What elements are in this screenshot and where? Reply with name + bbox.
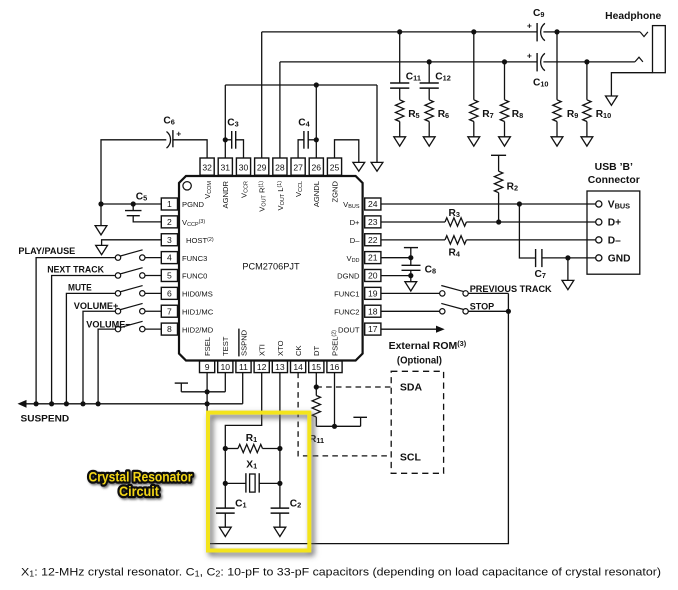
svg-text:12: 12 (257, 362, 267, 372)
pin 29 box (255, 158, 269, 175)
pin 16 box (327, 361, 342, 373)
pin 2 box (161, 216, 177, 228)
svg-text:15: 15 (312, 362, 322, 372)
capacitor C12 (427, 59, 432, 64)
capacitor C1 (216, 507, 235, 509)
wire pin 28 VOUTL riser (279, 62, 281, 158)
ground R5 (394, 137, 406, 146)
svg-text:25: 25 (330, 162, 340, 172)
svg-text:FUNC0: FUNC0 (182, 272, 207, 281)
svg-text:PREVIOUS TRACK: PREVIOUS TRACK (470, 284, 552, 294)
ground headphone sleeve (606, 96, 618, 105)
svg-text:Crystal Resonator: Crystal Resonator (89, 470, 194, 485)
svg-text:GND: GND (608, 254, 631, 265)
svg-text:R8: R8 (512, 109, 523, 120)
svg-text:R1: R1 (246, 433, 257, 444)
svg-text:TEST: TEST (221, 336, 230, 356)
resistor R6 (425, 100, 433, 122)
svg-text:SUSPEND: SUSPEND (21, 413, 70, 424)
svg-text:20: 20 (368, 271, 378, 281)
svg-text:21: 21 (368, 253, 378, 263)
capacitor C7 (535, 249, 537, 267)
svg-text:C5: C5 (136, 192, 147, 203)
svg-text:C12: C12 (435, 72, 451, 83)
wire analog gnd rail down (376, 85, 378, 162)
ground under C2 (274, 527, 286, 536)
wire pin 16 PSEL down (334, 373, 336, 427)
svg-text:NEXT TRACK: NEXT TRACK (47, 265, 104, 275)
wire bottom return rail (207, 293, 508, 543)
svg-text:HID2/MD: HID2/MD (182, 325, 214, 334)
svg-text:R2: R2 (507, 182, 518, 193)
crystal resonator highlight box (208, 413, 309, 551)
switch NEXT TRACK (145, 274, 161, 276)
pin 10 box (218, 361, 233, 373)
label Crystal Resonator Circuit (89, 470, 194, 499)
svg-text:VBUS: VBUS (608, 200, 630, 211)
wire C6 to pin 32 VCOM (173, 140, 207, 158)
svg-text:CK: CK (294, 345, 303, 356)
svg-text:SCL: SCL (400, 452, 422, 464)
svg-text:+: + (527, 51, 532, 61)
wire switch to SUSPEND rail (52, 275, 116, 403)
capacitor C4 (298, 140, 304, 158)
ground R9 (551, 137, 563, 146)
svg-text:30: 30 (239, 162, 249, 172)
svg-text:VOLUME+: VOLUME+ (74, 301, 119, 311)
svg-text:X1: 12-MHz crystal resonator.: X1: 12-MHz crystal resonator. C1, C2: 10… (21, 566, 661, 578)
svg-text:13: 13 (275, 362, 285, 372)
pin 26 box (309, 158, 323, 175)
svg-text:FSEL: FSEL (203, 337, 212, 356)
node SUSPEND rail (26, 403, 243, 405)
svg-text:X1: X1 (246, 460, 257, 471)
node PGND rail (101, 203, 161, 205)
ground under C1 (219, 527, 231, 536)
svg-text:23: 23 (368, 217, 378, 227)
USB pin VBUS (596, 201, 602, 207)
svg-text:R5: R5 (408, 109, 419, 120)
wire pin 13 XTO to crystal (279, 373, 281, 449)
wire pin 14 CK to SCL (dashed) (298, 373, 391, 456)
pin 23 box (365, 216, 381, 228)
pin 12 box (254, 361, 269, 373)
svg-text:C11: C11 (406, 72, 421, 83)
ground ZGND (353, 162, 365, 171)
svg-text:SSPND: SSPND (239, 329, 248, 356)
wire jack sleeve to ground (611, 73, 652, 96)
pin 22 box (365, 234, 381, 246)
wire pin 10 TEST down (224, 373, 226, 392)
resistor R9 (556, 32, 558, 100)
svg-text:2: 2 (167, 217, 172, 227)
pin 24 box (365, 198, 381, 210)
wire SUSPEND rail to pin 11 SSPND (242, 373, 244, 404)
svg-text:C6: C6 (163, 115, 174, 126)
svg-text:Headphone: Headphone (605, 11, 662, 22)
resistor R11 (312, 396, 320, 418)
svg-text:31: 31 (221, 162, 231, 172)
ground for HOST (96, 245, 108, 254)
svg-text:AGNDR: AGNDR (221, 180, 230, 208)
headphone jack body (653, 26, 666, 73)
wire pin 12 XTI to crystal (225, 373, 261, 449)
svg-text:PCM2706PJT: PCM2706PJT (242, 262, 300, 272)
wire strap junction to bottom rail (206, 392, 208, 544)
resistor R5 (396, 100, 404, 122)
svg-text:D+: D+ (350, 218, 360, 227)
wire switch to SUSPEND rail (83, 311, 115, 404)
svg-text:29: 29 (257, 162, 267, 172)
crystal X1 (225, 482, 246, 484)
pin 7 box (161, 305, 177, 317)
ground under DGND (410, 276, 412, 282)
svg-text:C8: C8 (425, 264, 436, 275)
resistor R2 pull-up (491, 154, 506, 156)
pin 25 box (327, 158, 341, 175)
pin 9 box (200, 361, 215, 373)
svg-text:XTO: XTO (276, 340, 285, 356)
wire pin 20 DGND (381, 275, 411, 277)
wire pin 9 FSEL down (206, 373, 208, 392)
wire PREVIOUS TRACK switch to return (468, 292, 508, 294)
pin 20 box (365, 269, 381, 281)
wire FSEL TEST strap (181, 391, 225, 393)
SSPND overbar (238, 329, 240, 357)
svg-text:18: 18 (368, 306, 378, 316)
svg-text:32: 32 (202, 162, 212, 172)
pin 32 box (200, 158, 214, 175)
svg-text:17: 17 (368, 324, 378, 334)
svg-text:SDA: SDA (400, 382, 423, 394)
resistor R8 (502, 59, 507, 64)
terminal T-bar VDD (404, 247, 418, 249)
pin 18 box (365, 305, 381, 317)
terminal T-bar for R11/PSEL strap (360, 417, 362, 426)
svg-text:19: 19 (368, 288, 378, 298)
resistor R1 (225, 448, 238, 450)
IC U1 PCM2706PJT body (179, 176, 363, 361)
wire C6 left to PGND rail (101, 140, 166, 204)
capacitor C8 (410, 258, 412, 266)
svg-text:5: 5 (167, 271, 172, 281)
wire crystal right column (279, 449, 281, 509)
pin 31 box (218, 158, 232, 175)
pin 21 box (365, 252, 381, 264)
ground R8 (499, 137, 511, 146)
pin 30 box (236, 158, 250, 175)
wire D- pin 22 with resistor R4 (381, 239, 445, 241)
wire VBUS pin 24 to connector (381, 203, 596, 205)
pin 17 box (365, 323, 381, 335)
svg-text:+: + (176, 129, 181, 139)
switch MUTE (145, 292, 161, 294)
svg-text:DT: DT (312, 346, 321, 356)
svg-text:R10: R10 (596, 109, 612, 120)
wire C9 to jack tip (557, 31, 640, 33)
wire VBUS to C7 (519, 204, 535, 258)
svg-text:C7: C7 (535, 269, 546, 280)
External ROM box (dashed) (391, 371, 443, 473)
svg-text:External ROM(3): External ROM(3) (389, 340, 467, 352)
wire STOP switch to return (468, 310, 508, 312)
svg-text:STOP: STOP (470, 302, 495, 312)
svg-text:XTI: XTI (258, 344, 267, 356)
switch PREVIOUS TRACK (381, 292, 440, 294)
wire switch to SUSPEND rail (36, 258, 115, 404)
svg-text:MUTE: MUTE (68, 282, 92, 292)
svg-text:C10: C10 (533, 77, 549, 88)
ground R10 (581, 137, 593, 146)
svg-text:+: + (527, 21, 532, 31)
svg-text:HID0/MS: HID0/MS (182, 290, 213, 299)
svg-text:DGND: DGND (337, 272, 360, 281)
svg-text:7: 7 (167, 306, 172, 316)
svg-text:ZGND: ZGND (330, 180, 339, 202)
wire pin 29 VOUTR riser (261, 32, 263, 158)
pin 28 box (273, 158, 287, 175)
wire pin 3 HOST to ground (102, 240, 162, 246)
wire pin 31 AGNDR riser (224, 85, 226, 158)
wire left channel rail (280, 61, 537, 63)
wire C5 to pin 2 VCCP (133, 216, 161, 222)
capacitor C2 (271, 507, 290, 509)
svg-text:Circuit: Circuit (119, 484, 159, 499)
capacitor C9 (536, 23, 538, 41)
wire C10 to jack ring (587, 61, 635, 63)
resistor R3 (445, 218, 466, 226)
wire R4 to connector (466, 239, 595, 241)
svg-text:9: 9 (205, 362, 210, 372)
pin 15 box (309, 361, 324, 373)
pin 3 box (161, 234, 177, 246)
svg-text:PGND: PGND (182, 200, 204, 209)
svg-text:16: 16 (330, 362, 340, 372)
wire R3 to connector (466, 221, 595, 223)
svg-text:14: 14 (293, 362, 303, 372)
wire D+ pin 23 with resistor R3 (381, 221, 445, 223)
switch VOLUME- (145, 328, 161, 330)
capacitor C10 (536, 53, 538, 71)
pin 4 box (161, 252, 177, 264)
svg-text:HID1/MC: HID1/MC (182, 307, 214, 316)
svg-text:VOLUME−: VOLUME− (86, 319, 131, 329)
svg-text:Connector: Connector (588, 175, 640, 186)
pin 13 box (272, 361, 287, 373)
svg-text:22: 22 (368, 235, 378, 245)
ground on USB GND (567, 258, 569, 281)
svg-text:1: 1 (167, 199, 172, 209)
pin 5 box (161, 269, 177, 281)
svg-text:PLAY/PAUSE: PLAY/PAUSE (18, 246, 75, 256)
capacitor C5 (132, 204, 134, 211)
svg-text:3: 3 (167, 235, 172, 245)
svg-text:(Optional): (Optional) (397, 355, 442, 366)
svg-text:C1: C1 (235, 498, 246, 509)
svg-text:24: 24 (368, 199, 378, 209)
headphone jack tip contact (640, 32, 648, 37)
svg-text:D–: D– (608, 236, 621, 247)
wire analog ground rail (225, 84, 377, 86)
svg-text:FUNC1: FUNC1 (334, 290, 359, 299)
svg-text:DOUT: DOUT (338, 325, 360, 334)
svg-text:6: 6 (167, 288, 172, 298)
ground below PGND rail (100, 204, 102, 226)
wire pin 25 ZGND to ground (335, 140, 359, 163)
svg-text:FUNC2: FUNC2 (334, 307, 359, 316)
wire crystal left column (224, 449, 226, 509)
wire C7 to GND pin of connector (542, 257, 596, 259)
terminal T-bar for FSEL/TEST (175, 382, 188, 384)
wire pin 15 DT down (315, 373, 317, 388)
svg-text:27: 27 (293, 162, 303, 172)
svg-text:8: 8 (167, 324, 172, 334)
svg-text:11: 11 (239, 362, 248, 372)
wire pin 21 VDD (381, 257, 411, 259)
svg-text:26: 26 (312, 162, 322, 172)
svg-text:AGNDL: AGNDL (312, 181, 321, 207)
wire switch to SUSPEND rail (66, 293, 115, 403)
svg-text:R3: R3 (449, 208, 460, 219)
resistor R7 (471, 29, 476, 34)
ground analog (371, 162, 383, 171)
wire right channel rail (262, 31, 537, 33)
headphone jack ring contact (635, 57, 643, 62)
USB pin D+ (596, 219, 602, 225)
wire pin 17 DOUT arrow (381, 328, 438, 330)
svg-text:R9: R9 (567, 109, 578, 120)
switch PLAY/PAUSE (145, 257, 161, 259)
switch STOP (381, 310, 440, 312)
capacitor C11 (397, 29, 402, 34)
pin 19 box (365, 287, 381, 299)
svg-text:10: 10 (221, 362, 231, 372)
svg-text:USB ’B’: USB ’B’ (595, 162, 633, 173)
resistor R10 (586, 62, 588, 100)
resistor R4 (445, 236, 466, 244)
USB B connector box (587, 191, 640, 274)
capacitor C3 (223, 137, 228, 142)
svg-text:R4: R4 (449, 247, 461, 258)
svg-text:FUNC3: FUNC3 (182, 254, 207, 263)
switch VOLUME+ (145, 310, 161, 312)
USB pin GND (596, 255, 602, 261)
wire R11 and PSEL strap (316, 425, 360, 427)
ground R7 (468, 137, 480, 146)
svg-text:C2: C2 (290, 498, 301, 509)
wire DT to SDA (dashed) (316, 386, 391, 388)
svg-text:4: 4 (167, 253, 172, 263)
svg-text:D+: D+ (608, 218, 621, 229)
svg-text:C9: C9 (533, 8, 544, 19)
pin 27 box (291, 158, 305, 175)
pin 14 box (291, 361, 306, 373)
wire pin 26 AGNDL riser (315, 85, 317, 158)
svg-text:C4: C4 (298, 117, 310, 128)
pin 8 box (161, 323, 177, 335)
svg-text:D–: D– (350, 236, 360, 245)
wire switch to SUSPEND rail (98, 329, 115, 404)
ground R6 (423, 137, 435, 146)
pin 11 box (236, 361, 251, 373)
svg-text:R6: R6 (438, 109, 449, 120)
capacitor C6 (167, 132, 171, 149)
svg-text:C3: C3 (227, 117, 238, 128)
pin 6 box (161, 287, 177, 299)
svg-text:R7: R7 (482, 109, 493, 120)
pin 1 box (161, 198, 177, 210)
USB pin D- (596, 237, 602, 243)
svg-text:28: 28 (275, 162, 285, 172)
